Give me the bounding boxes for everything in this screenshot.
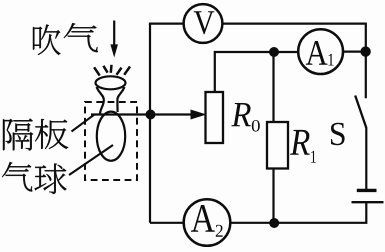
wire: bottom segment from left corner to ammeter A2	[150, 222, 184, 224]
leader line from 隔板 to partition	[72, 115, 95, 132]
battery positive plate (long thin)	[352, 201, 384, 203]
switch S blade	[355, 96, 366, 128]
label A of ammeter A1	[306, 41, 328, 65]
label V of voltmeter	[194, 11, 215, 34]
resistor R1 box	[267, 122, 288, 169]
wiper arrow from node D into R0	[150, 113, 192, 115]
label 吹气 (blow air) char 气	[64, 23, 98, 52]
label S of switch	[331, 123, 345, 145]
label R of R1	[290, 130, 310, 155]
ammeter A2 circle	[184, 199, 231, 246]
leader line from 气球 to balloon body	[69, 145, 113, 175]
wire: R1 top lead from node A	[272, 52, 274, 122]
label 吹气 (blow air) char 吹	[33, 24, 60, 54]
balloon flask neck left profile	[97, 87, 104, 114]
partition 隔板 line through flask to node D	[91, 113, 150, 115]
wire: R0 top lead	[214, 51, 216, 93]
wire: voltmeter to top-right corner down to switch	[222, 24, 365, 99]
wire: middle horizontal from R0 corner to node A	[215, 51, 274, 53]
dashed enclosure box around balloon	[85, 102, 137, 180]
label subscript 1 of ammeter A1	[329, 54, 334, 66]
label subscript 0 of R0	[252, 120, 260, 132]
label 气球 (balloon) char 气	[2, 162, 32, 192]
wire: ammeter A1 right terminal to node B	[343, 50, 366, 52]
wire: left branch vertical	[149, 24, 151, 223]
balloon body (气球)	[97, 112, 125, 161]
battery negative plate (short thick)	[357, 189, 377, 192]
ammeter A1 circle	[298, 29, 343, 74]
switch S lower lead	[365, 128, 367, 190]
wire: R1 bottom lead down to node C	[272, 169, 274, 223]
voltmeter V circle	[184, 4, 223, 43]
rheostat R0 box	[206, 92, 224, 143]
balloon flask neck right profile	[117, 87, 124, 112]
label 隔板 (partition) char 板	[35, 119, 68, 149]
node D (wiper tap on left branch)	[146, 110, 156, 120]
label R of R0	[231, 103, 251, 126]
label subscript 1 of R1	[311, 151, 316, 163]
wire: ammeter A2 to node C to battery bottom lead	[230, 202, 366, 223]
node A (top of R1)	[269, 47, 279, 57]
label 隔板 (partition) char 隔	[3, 119, 33, 151]
wire: top segment from left corner to voltmeter	[149, 23, 184, 25]
label A of ammeter A2	[191, 205, 215, 232]
label subscript 2 of ammeter A2	[216, 225, 223, 237]
node B (right of A1)	[360, 46, 370, 56]
blow-direction down arrow	[113, 21, 115, 47]
label 气球 (balloon) char 球	[35, 164, 67, 194]
wire: node A to ammeter A1 left terminal	[274, 51, 299, 53]
rays above balloon mouth	[94, 67, 100, 75]
node C (bottom of R1)	[269, 218, 279, 228]
balloon flask mouth	[96, 76, 126, 89]
